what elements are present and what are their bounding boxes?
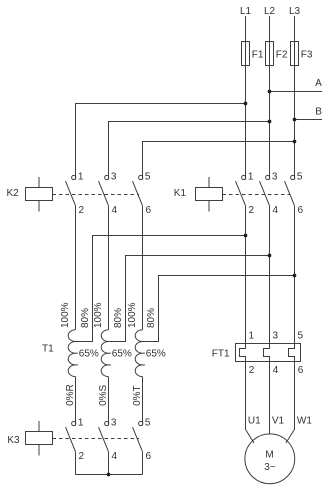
svg-text:4: 4	[273, 205, 279, 216]
svg-text:0%S: 0%S	[98, 384, 109, 405]
svg-text:V1: V1	[272, 415, 285, 426]
svg-text:6: 6	[146, 205, 152, 216]
svg-text:3: 3	[111, 417, 117, 428]
svg-text:FT1: FT1	[212, 348, 230, 359]
svg-text:3: 3	[272, 171, 278, 182]
svg-text:0%T: 0%T	[132, 385, 143, 406]
svg-text:K1: K1	[174, 188, 187, 199]
svg-text:U1: U1	[248, 415, 261, 426]
svg-text:100%: 100%	[60, 302, 71, 328]
svg-text:4: 4	[112, 451, 118, 462]
svg-text:5: 5	[145, 171, 151, 182]
svg-text:80%: 80%	[146, 308, 157, 328]
svg-text:M: M	[265, 450, 273, 461]
svg-text:65%: 65%	[112, 349, 132, 360]
svg-text:3~: 3~	[264, 462, 276, 473]
svg-text:80%: 80%	[80, 308, 91, 328]
svg-text:65%: 65%	[146, 349, 166, 360]
svg-text:L1: L1	[240, 6, 252, 17]
svg-text:6: 6	[298, 365, 304, 376]
svg-text:1: 1	[78, 171, 84, 182]
svg-text:80%: 80%	[113, 308, 124, 328]
svg-text:3: 3	[273, 330, 279, 341]
svg-text:5: 5	[297, 171, 303, 182]
svg-text:K3: K3	[7, 435, 20, 446]
svg-text:K2: K2	[7, 188, 20, 199]
svg-text:2: 2	[249, 205, 255, 216]
svg-text:W1: W1	[297, 415, 312, 426]
svg-text:F2: F2	[276, 50, 288, 61]
svg-text:6: 6	[298, 205, 304, 216]
svg-text:5: 5	[298, 330, 304, 341]
svg-text:100%: 100%	[127, 302, 138, 328]
svg-text:3: 3	[111, 171, 117, 182]
svg-text:6: 6	[146, 451, 152, 462]
svg-text:L2: L2	[264, 6, 276, 17]
svg-text:2: 2	[79, 451, 85, 462]
svg-text:L3: L3	[289, 6, 301, 17]
svg-text:0%R: 0%R	[65, 384, 76, 406]
svg-text:1: 1	[78, 417, 84, 428]
svg-text:B: B	[315, 106, 322, 117]
svg-text:F1: F1	[252, 50, 264, 61]
svg-text:65%: 65%	[79, 349, 99, 360]
svg-text:4: 4	[112, 205, 118, 216]
svg-text:2: 2	[79, 205, 85, 216]
svg-text:A: A	[315, 78, 322, 89]
svg-text:1: 1	[249, 330, 255, 341]
svg-text:T1: T1	[42, 344, 54, 355]
svg-text:2: 2	[249, 365, 255, 376]
svg-text:5: 5	[145, 417, 151, 428]
svg-text:F3: F3	[301, 50, 313, 61]
svg-text:100%: 100%	[93, 302, 104, 328]
svg-text:4: 4	[273, 365, 279, 376]
svg-text:1: 1	[248, 171, 254, 182]
